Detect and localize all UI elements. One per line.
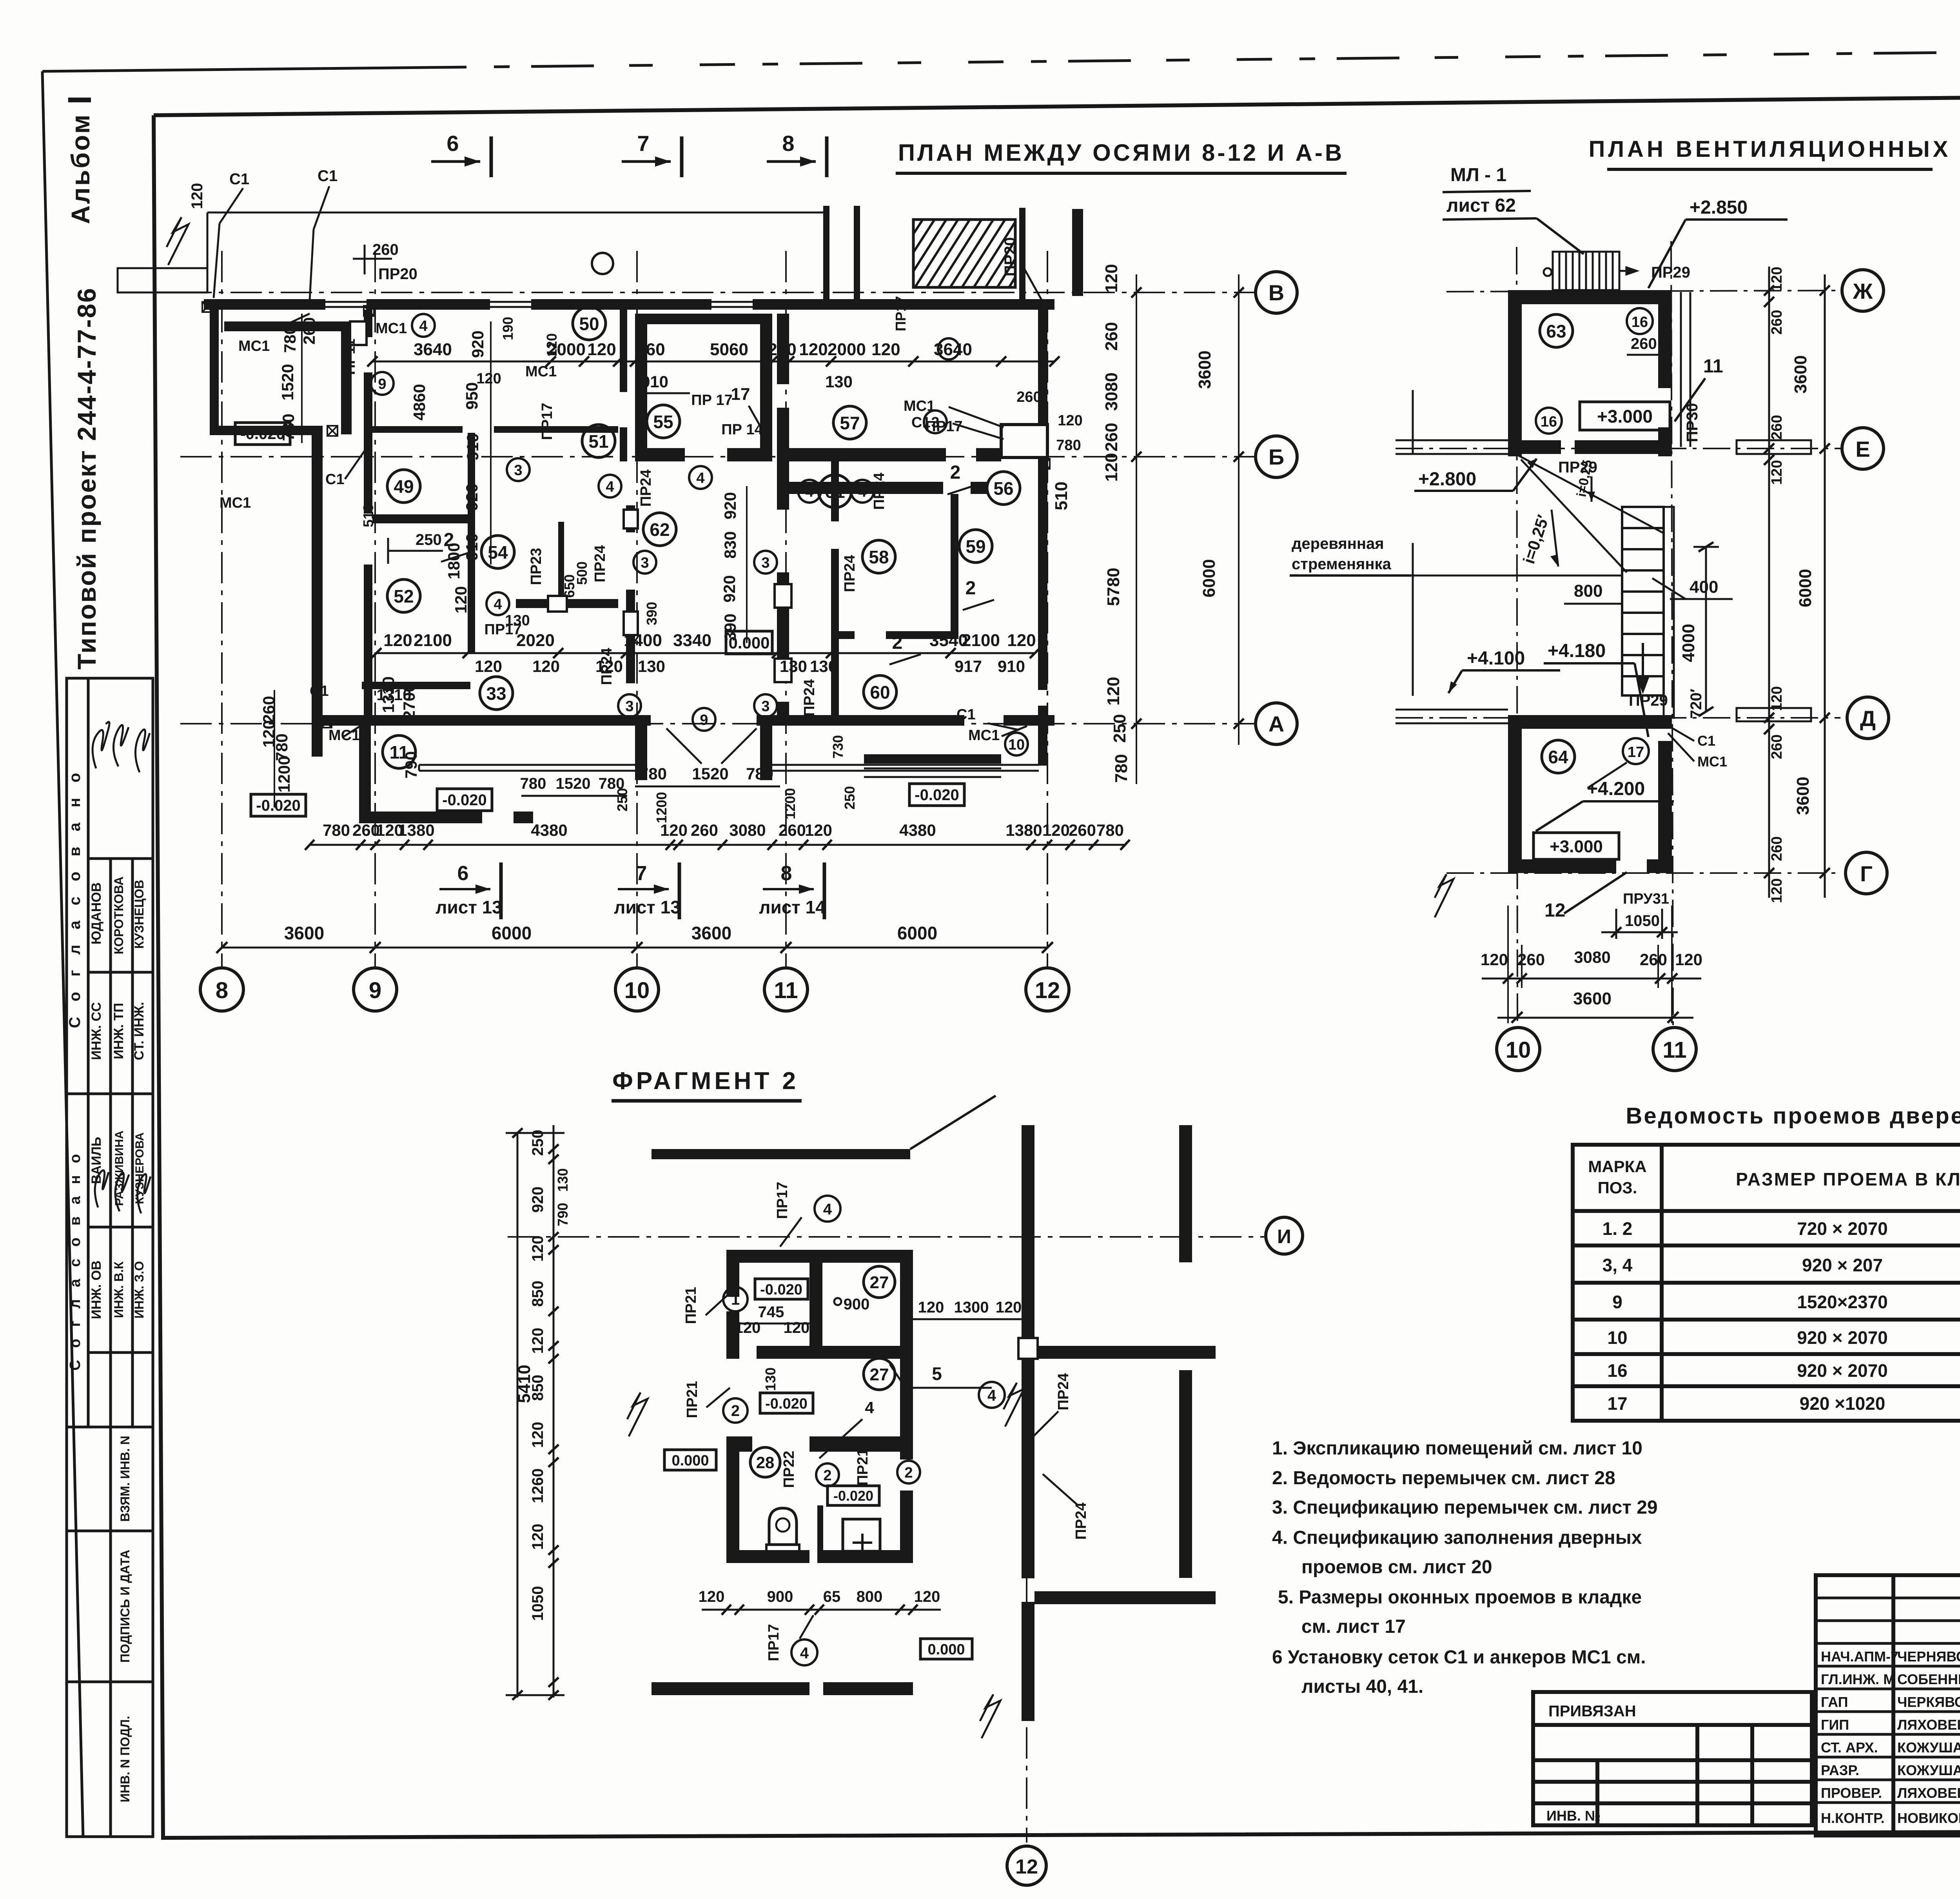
svg-text:16: 16 (1541, 414, 1557, 430)
svg-text:120: 120 (529, 1524, 546, 1550)
svg-text:120: 120 (799, 340, 828, 359)
bottom dim row 1 (323, 821, 1124, 839)
wall far right wall seg1 (1179, 1125, 1192, 1262)
break marks (627, 1392, 648, 1436)
room 27a circle (864, 1266, 895, 1298)
wall top-left room right (341, 331, 352, 434)
svg-text:3: 3 (761, 698, 769, 715)
svg-text:3: 3 (761, 555, 769, 571)
svg-text:1520: 1520 (278, 364, 297, 400)
wall axis11 wall seg1 (777, 314, 789, 384)
svg-text:-0.020: -0.020 (833, 1488, 873, 1504)
svg-text:листы 40, 41.: листы 40, 41. (1301, 1676, 1423, 1697)
wall left wall upper (210, 299, 219, 435)
svg-text:ПР 14: ПР 14 (721, 421, 762, 438)
wall left wall lower (312, 426, 323, 757)
svg-text:120: 120 (805, 821, 832, 839)
svg-text:С1: С1 (325, 471, 345, 488)
svg-text:Типовой проект 244-4-77-86: Типовой проект 244-4-77-86 (72, 287, 101, 670)
mark 2b (897, 1461, 920, 1483)
svg-text:ПРИВЯЗАН: ПРИВЯЗАН (1548, 1703, 1636, 1720)
signature table verticals (1891, 1575, 1895, 1835)
svg-text:260: 260 (1769, 836, 1785, 861)
svg-text:МС1: МС1 (904, 398, 935, 414)
svg-text:4: 4 (800, 1645, 809, 1662)
svg-text:3080: 3080 (1574, 948, 1610, 966)
room 11 (383, 735, 416, 768)
wall bottom thick wall b (823, 1682, 913, 1695)
svg-text:3: 3 (641, 555, 649, 571)
break mark bottom left (1435, 874, 1454, 917)
level box -0.020 center (437, 789, 492, 811)
axis circle D (1847, 697, 1889, 739)
svg-text:130: 130 (505, 612, 530, 629)
svg-text:4380: 4380 (531, 821, 567, 839)
wall axis11 wall seg3 (777, 461, 789, 510)
wall shaft bar1 (823, 206, 829, 300)
svg-text:Б: Б (1269, 445, 1284, 469)
svg-text:57: 57 (840, 413, 860, 433)
svg-text:920: 920 (529, 1187, 546, 1213)
svg-text:лист 14: лист 14 (759, 897, 826, 917)
wall top wall seg2 (367, 299, 490, 310)
inv podl box (67, 1682, 153, 1837)
svg-text:6000: 6000 (897, 923, 937, 943)
svg-text:260: 260 (300, 317, 318, 345)
svg-text:ПОДПИСЬ И ДАТА: ПОДПИСЬ И ДАТА (118, 1550, 132, 1663)
svg-text:130: 130 (780, 657, 807, 675)
room 58 (862, 540, 895, 573)
svg-text:10: 10 (1506, 1037, 1531, 1063)
svg-text:780: 780 (599, 775, 625, 792)
svg-text:ПР24: ПР24 (592, 545, 608, 583)
svg-text:120: 120 (475, 657, 502, 675)
wall rooms top wall (726, 1250, 913, 1263)
svg-text:ГАП: ГАП (1821, 1694, 1848, 1710)
level box -0.020 room2 (760, 1393, 813, 1413)
axis circle 9 (354, 968, 397, 1011)
svg-text:27: 27 (870, 1365, 889, 1384)
svg-text:52: 52 (394, 586, 414, 606)
wall axis11 wall seg2 (777, 408, 789, 461)
svg-text:130: 130 (825, 372, 853, 391)
svg-text:1380: 1380 (1005, 821, 1042, 839)
svg-text:3600: 3600 (1573, 989, 1612, 1008)
svg-text:390: 390 (644, 602, 660, 625)
wall axis11 wall seg5 (777, 702, 789, 726)
svg-text:910: 910 (641, 372, 668, 391)
svg-text:120: 120 (532, 657, 560, 675)
svg-text:120: 120 (1042, 821, 1070, 839)
opening mark 3 (507, 458, 530, 481)
svg-text:-0.020: -0.020 (915, 786, 959, 804)
sheet outer border left edge (42, 71, 83, 1838)
wall bottom thick wall a (652, 1682, 809, 1695)
svg-text:800: 800 (1574, 581, 1602, 601)
room 27b circle (864, 1358, 895, 1390)
svg-text:120: 120 (660, 821, 688, 839)
room 62 (643, 513, 676, 546)
svg-text:260: 260 (1016, 389, 1041, 405)
svg-text:51: 51 (588, 431, 608, 452)
svg-text:ПР24: ПР24 (599, 648, 615, 685)
svg-text:6 Установку сеток С1 и ан: 6 Установку сеток С1 и анкеров МС1 см. (1272, 1647, 1646, 1668)
axis 11 vertical (1671, 241, 1673, 1027)
wall room55 bottom wall a (635, 448, 685, 461)
svg-text:130: 130 (810, 657, 837, 675)
wall axis9 wall seg3 (364, 565, 372, 715)
svg-text:260: 260 (1102, 322, 1121, 350)
svg-text:С о г л а с о в а н о: С о г л а с о в а н о (67, 1150, 83, 1371)
canopy left outrigger (118, 268, 207, 292)
svg-text:920 × 2070: 920 × 2070 (1797, 1360, 1888, 1381)
svg-text:120: 120 (735, 1319, 761, 1336)
svg-text:390: 390 (721, 614, 739, 641)
svg-text:260: 260 (1769, 310, 1785, 334)
labels above top wall (189, 167, 1019, 357)
svg-text:Г: Г (1860, 861, 1873, 886)
svg-text:+4.100: +4.100 (1467, 648, 1525, 669)
wall left vestibule wall h a (359, 812, 482, 823)
svg-text:27: 27 (870, 1273, 889, 1292)
svg-text:745: 745 (758, 1304, 784, 1321)
wall shaft bar4 thick (1072, 209, 1083, 296)
svg-text:МС1: МС1 (968, 727, 1000, 744)
svg-text:3640: 3640 (414, 340, 452, 359)
svg-text:120: 120 (918, 1299, 944, 1316)
svg-text:ГЛ.ИНЖ. М: ГЛ.ИНЖ. М (1821, 1671, 1895, 1687)
wall bottom wall A seg2 (757, 715, 964, 726)
wall right wall low (1038, 706, 1047, 766)
room 60 (864, 675, 897, 708)
svg-text:РАЗМЕР ПРОЕМА В КЛАДКЕ: РАЗМЕР ПРОЕМА В КЛАДКЕ (1736, 1169, 1960, 1189)
svg-text:3. Спецификацию перемычек с: 3. Спецификацию перемычек см. лист 29 (1272, 1497, 1658, 1518)
svg-text:-0.020: -0.020 (442, 792, 486, 809)
axis circle В (1256, 272, 1297, 313)
corner pier box at B right (1001, 425, 1047, 458)
wall room54 bottom wall a (516, 599, 550, 608)
room 54 (481, 536, 514, 568)
svg-text:260: 260 (779, 821, 806, 839)
opening mark 9 (371, 372, 394, 395)
room 50 (573, 307, 606, 340)
wall room54 left wall (468, 522, 475, 653)
svg-text:ИНЖ. СС: ИНЖ. СС (89, 1002, 104, 1060)
axis line G (1446, 872, 1840, 874)
svg-text:6: 6 (457, 862, 469, 885)
svg-text:МС1: МС1 (238, 338, 270, 354)
svg-text:920: 920 (468, 330, 487, 358)
svg-text:НОВИКОВА: НОВИКОВА (1897, 1810, 1960, 1826)
svg-text:ВЗЯМ. ИНВ. N: ВЗЯМ. ИНВ. N (118, 1436, 132, 1521)
stair shaft middle (1622, 507, 1664, 695)
svg-text:250: 250 (1110, 714, 1129, 743)
room 61 (818, 475, 851, 508)
axis line E (1396, 448, 1840, 449)
svg-text:-0.020: -0.020 (765, 1396, 808, 1412)
svg-text:120: 120 (1007, 631, 1036, 650)
svg-text:28: 28 (756, 1453, 775, 1472)
level box -0.020 low (828, 1486, 879, 1505)
svg-text:3080: 3080 (1102, 372, 1121, 411)
svg-text:4: 4 (696, 470, 704, 487)
svg-text:С1: С1 (1697, 733, 1715, 749)
svg-text:ИНЖ. ОВ: ИНЖ. ОВ (89, 1260, 104, 1319)
svg-text:МС1: МС1 (220, 495, 251, 511)
svg-text:ИНЖ. З.О: ИНЖ. З.О (132, 1261, 146, 1319)
svg-text:1260: 1260 (529, 1469, 546, 1503)
room 33 (480, 677, 513, 710)
svg-text:ПР17: ПР17 (774, 1182, 791, 1219)
svg-text:260: 260 (1069, 821, 1096, 839)
wall corridor top wall (652, 1149, 910, 1159)
axis 10 vertical (1517, 247, 1517, 1027)
svg-text:3600: 3600 (691, 923, 731, 943)
wall room55 bottom wall b (727, 448, 772, 461)
svg-text:ИНЖ. ТП: ИНЖ. ТП (111, 1003, 126, 1059)
axis circle 10 bottom (1497, 1028, 1540, 1071)
svg-text:-0.020: -0.020 (760, 1282, 802, 1298)
svg-text:+3.000: +3.000 (1597, 406, 1653, 427)
wall axis9 wall seg2 (364, 372, 372, 514)
svg-text:ПР17: ПР17 (539, 403, 555, 440)
svg-text:120: 120 (871, 340, 900, 359)
svg-text:120: 120 (1675, 950, 1702, 969)
svg-text:7: 7 (637, 131, 649, 156)
svg-text:Ж: Ж (1853, 279, 1873, 303)
wall top-left room top (224, 321, 352, 331)
svg-text:2. Ведомость перемычек см.: 2. Ведомость перемычек см. лист 28 (1272, 1468, 1615, 1489)
svg-text:ПР17: ПР17 (926, 418, 963, 435)
porch edge lines below A (419, 765, 1039, 777)
svg-text:стременянка: стременянка (1292, 556, 1392, 573)
svg-text:ПР24: ПР24 (1073, 1503, 1089, 1540)
wall stall bottom wall b (823, 1550, 913, 1563)
opening mark 3 (754, 694, 777, 717)
svg-text:ПЛАН ВЕНТИЛЯЦИОННЫХ: ПЛАН ВЕНТИЛЯЦИОННЫХ (1589, 136, 1951, 162)
lintel slot right wall (1018, 1338, 1038, 1359)
thin outer wall right of room 63 (1680, 292, 1682, 447)
svg-text:3, 4: 3, 4 (1602, 1255, 1633, 1275)
wall stub E right thin (1737, 440, 1811, 454)
svg-text:12: 12 (1035, 978, 1060, 1003)
svg-text:58: 58 (869, 547, 889, 567)
wall room55 top wall (635, 314, 772, 324)
axis circle 11 bottom (1653, 1028, 1696, 1071)
svg-text:ЮДАНОВ: ЮДАНОВ (89, 882, 104, 945)
wall partition h y1610 b (886, 631, 958, 639)
svg-text:10: 10 (624, 978, 650, 1003)
axis 9 vertical line (374, 251, 376, 968)
axis 8 vertical line (221, 251, 223, 968)
svg-text:33: 33 (486, 683, 506, 704)
svg-text:ПР24: ПР24 (871, 473, 887, 510)
axis circle 11 (764, 968, 808, 1011)
svg-text:780: 780 (1096, 821, 1124, 839)
opening mark 4 (798, 480, 821, 503)
svg-text:КУЗНЕЦОВ: КУЗНЕЦОВ (132, 880, 146, 949)
svg-text:4. Спецификацию заполнения: 4. Спецификацию заполнения дверных (1272, 1527, 1642, 1548)
wall right horiz band2 (1034, 1591, 1216, 1604)
svg-text:130: 130 (638, 657, 665, 675)
wall far right wall seg2 (1179, 1370, 1192, 1578)
wall partition x2425 (951, 494, 958, 639)
svg-text:МС1: МС1 (376, 320, 407, 337)
axis circle Б (1256, 436, 1297, 477)
svg-text:910: 910 (463, 433, 482, 461)
svg-text:17: 17 (1607, 1393, 1627, 1414)
svg-text:3080: 3080 (729, 821, 766, 839)
svg-text:9: 9 (369, 978, 381, 1003)
svg-text:12: 12 (1015, 1855, 1038, 1878)
svg-text:780: 780 (1112, 754, 1131, 782)
svg-text:лист 13: лист 13 (436, 897, 502, 917)
svg-text:ПР29: ПР29 (1651, 264, 1690, 281)
svg-text:4: 4 (419, 318, 427, 334)
left wall continuation lines at E (1396, 439, 1508, 441)
svg-text:120: 120 (1102, 264, 1121, 292)
svg-text:11: 11 (1703, 356, 1723, 377)
svg-text:ПР30: ПР30 (1684, 403, 1701, 442)
svg-text:МС1: МС1 (525, 363, 557, 380)
axis circle I (1266, 1217, 1303, 1254)
svg-text:120: 120 (1769, 460, 1785, 485)
svg-text:1520: 1520 (556, 775, 591, 792)
svg-text:2: 2 (904, 1465, 913, 1481)
wall left wall low (726, 1452, 739, 1563)
svg-text:5060: 5060 (710, 340, 748, 359)
window sill notch top (1619, 292, 1647, 294)
svg-text:РАЗР.: РАЗР. (1821, 1762, 1859, 1778)
svg-text:ПР20: ПР20 (378, 265, 417, 283)
svg-text:120: 120 (544, 333, 560, 357)
signature table rows (1816, 1597, 1960, 1599)
svg-text:ПР24: ПР24 (842, 555, 858, 592)
svg-text:ЛЯХОВЕЦКАЯ: ЛЯХОВЕЦКАЯ (1897, 1785, 1960, 1801)
svg-text:И: И (1277, 1225, 1291, 1247)
wall room50-51 divider wall a (372, 426, 463, 433)
svg-text:МЛ - 1: МЛ - 1 (1450, 165, 1506, 185)
sink 2 (843, 1519, 880, 1551)
svg-text:4000: 4000 (1679, 624, 1698, 662)
svg-text:ПР24: ПР24 (1055, 1373, 1072, 1411)
wall top wall seg3 (531, 299, 711, 310)
mid dim row y1635 (383, 631, 1036, 650)
wall central wall (809, 1250, 822, 1359)
svg-text:55: 55 (653, 412, 673, 432)
svg-text:С1: С1 (310, 683, 329, 699)
axis line Zh (1446, 290, 1840, 292)
svg-text:1050: 1050 (1625, 912, 1660, 930)
wall left wall seg1 (726, 1250, 739, 1297)
svg-text:120: 120 (996, 1299, 1022, 1316)
svg-text:120: 120 (189, 183, 206, 209)
svg-text:62: 62 (650, 519, 670, 540)
wall rooms58-59 top wall b (971, 482, 988, 494)
right 4 mark + PR24 (979, 1382, 1005, 1408)
svg-text:8: 8 (782, 131, 794, 156)
wall room49 bottom wall (372, 514, 468, 523)
wall bottom wall A seg3 (1004, 715, 1054, 726)
axis circle 12 (1007, 1846, 1046, 1885)
sub dim row y1700 (475, 657, 1025, 675)
level box -0.020 bottom left (251, 794, 306, 816)
lintel slots (white boxes on walls) (350, 321, 1047, 682)
svg-text:720′: 720′ (1688, 689, 1705, 719)
svg-text:ПЛАН МЕЖДУ ОСЯМИ 8-12 И А-В: ПЛАН МЕЖДУ ОСЯМИ 8-12 И А-В (898, 140, 1344, 166)
svg-text:260: 260 (768, 340, 796, 359)
wall stub D right thin (1737, 708, 1811, 721)
svg-text:260: 260 (691, 821, 718, 839)
wall axis11 wall seg4 (777, 572, 789, 683)
svg-text:ПР29: ПР29 (1629, 692, 1668, 709)
svg-text:61: 61 (825, 481, 845, 502)
svg-text:ИНВ. №: ИНВ. № (1546, 1808, 1601, 1824)
svg-text:3340: 3340 (673, 631, 711, 650)
svg-text:510: 510 (360, 504, 376, 527)
leader from E to stair (1517, 455, 1664, 533)
svg-text:120: 120 (529, 1422, 546, 1448)
svg-text:ПР11: ПР11 (342, 339, 358, 375)
svg-text:+2.800: +2.800 (1418, 469, 1476, 490)
svg-text:5780: 5780 (1104, 568, 1123, 606)
svg-text:С о г л а с о в а н о: С о г л а с о в а н о (66, 768, 83, 1028)
canopy line top (207, 212, 823, 214)
svg-text:1520: 1520 (692, 764, 728, 783)
svg-text:I: I (61, 95, 98, 104)
wall partition x2120 a (831, 457, 839, 521)
svg-text:780: 780 (520, 775, 546, 792)
svg-text:Ведомость проемов дверей: Ведомость проемов дверей (1626, 1103, 1960, 1129)
svg-text:ПР 17: ПР 17 (691, 392, 732, 408)
room 55 (647, 405, 680, 438)
wall rooms58-59 top wall a (789, 482, 943, 494)
svg-text:лист 13: лист 13 (614, 897, 681, 917)
wall right wall upper (1038, 299, 1047, 425)
svg-text:ПР21: ПР21 (855, 1449, 871, 1486)
svg-text:8: 8 (781, 862, 792, 885)
wall B axis wall right a (789, 448, 946, 461)
svg-text:120: 120 (1769, 878, 1785, 903)
wall B axis wall right b (976, 448, 1001, 461)
svg-text:ПРОВЕР.: ПРОВЕР. (1821, 1785, 1882, 1801)
svg-text:49: 49 (394, 476, 414, 497)
svg-text:С1: С1 (318, 167, 338, 185)
svg-text:63: 63 (1546, 321, 1566, 341)
wall partition x2120 b (831, 549, 839, 715)
svg-text:780: 780 (746, 764, 773, 783)
svg-text:4: 4 (865, 1398, 874, 1417)
wall stall bottom wall a (726, 1550, 809, 1563)
svg-text:190: 190 (500, 317, 516, 340)
svg-text:120: 120 (1769, 686, 1785, 711)
svg-text:ПР24: ПР24 (801, 679, 818, 717)
svg-text:2: 2 (823, 1467, 831, 1484)
wall right outer wall seg1 (1022, 1125, 1034, 1338)
svg-text:ИНЖ. В.К: ИНЖ. В.К (112, 1261, 126, 1318)
svg-text:1200: 1200 (275, 756, 293, 792)
svg-text:ПР22: ПР22 (781, 1451, 797, 1488)
svg-text:920 × 2070: 920 × 2070 (1797, 1327, 1888, 1348)
svg-text:130: 130 (762, 1367, 779, 1391)
svg-text:4: 4 (987, 1387, 996, 1404)
svg-text:лист 62: лист 62 (1446, 195, 1516, 216)
axis А horizontal line (180, 723, 1256, 724)
svg-text:500: 500 (574, 561, 590, 585)
level box -0.020 left (235, 423, 290, 445)
hatched shaft (913, 220, 1015, 287)
svg-text:780: 780 (323, 821, 350, 839)
